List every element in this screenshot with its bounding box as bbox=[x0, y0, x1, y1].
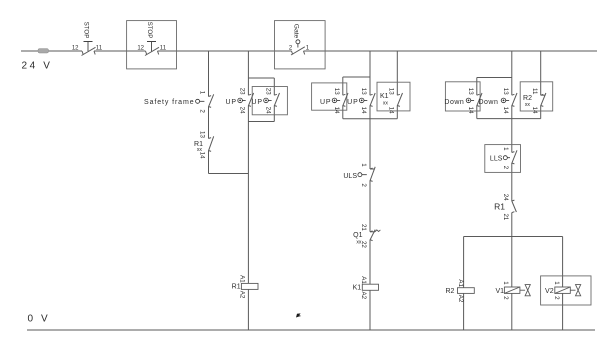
pin 14 of S5 bbox=[333, 107, 340, 114]
pin 11 of R2 contact bbox=[531, 88, 538, 95]
svg-text:14: 14 bbox=[333, 107, 340, 114]
pushbutton STOP S2 (NC) bbox=[145, 22, 159, 56]
svg-text:Gate: Gate bbox=[293, 24, 300, 39]
overload contact Q1 21-22 (NC) bbox=[353, 230, 380, 246]
pushbutton UP S3 (NO) bbox=[225, 93, 253, 106]
pin 24 of R1 contact bbox=[502, 194, 509, 201]
svg-text:Q1: Q1 bbox=[353, 232, 362, 239]
relay coil K1 bbox=[353, 284, 379, 291]
svg-text:21: 21 bbox=[502, 213, 509, 220]
wire W2 vertical bbox=[247, 51, 249, 330]
svg-text:13: 13 bbox=[360, 88, 367, 95]
svg-text:1: 1 bbox=[360, 163, 367, 167]
pin A2 of R2 coil bbox=[457, 295, 464, 303]
fuse F1 bbox=[38, 49, 49, 53]
wire 0V bottom rail bbox=[27, 329, 595, 331]
svg-text:STOP: STOP bbox=[83, 22, 90, 39]
pin 22 of Q1 bbox=[360, 241, 367, 248]
svg-text:LLS: LLS bbox=[490, 155, 503, 162]
svg-text:A1: A1 bbox=[239, 275, 246, 283]
pin 11 of S2 bbox=[160, 45, 167, 51]
pin 1 of V2 bbox=[553, 281, 560, 285]
svg-text:24: 24 bbox=[239, 107, 246, 114]
enclosure box remote UP bbox=[252, 87, 287, 115]
svg-text:12: 12 bbox=[72, 45, 79, 51]
pushbutton Down S8 (NO) bbox=[478, 93, 517, 106]
pushbutton UP S4 (NO) bbox=[251, 93, 279, 106]
pin 14 of R2 contact bbox=[531, 107, 538, 114]
svg-text:V2: V2 bbox=[545, 288, 554, 295]
pin 2 of ULS bbox=[360, 183, 367, 187]
pin 21 of R1 contact bbox=[502, 213, 509, 220]
enclosure box LLS bbox=[485, 145, 521, 173]
svg-text:Down: Down bbox=[444, 99, 464, 106]
svg-text:14: 14 bbox=[388, 107, 395, 114]
relay coil R1 bbox=[232, 283, 258, 290]
svg-text:14: 14 bbox=[502, 107, 509, 114]
svg-text:A2: A2 bbox=[457, 295, 464, 303]
relay contact R1 13-14 (NO) bbox=[194, 136, 214, 153]
wire UP2 branch loop bbox=[343, 77, 398, 119]
svg-text:STOP: STOP bbox=[146, 22, 153, 39]
svg-text:24 V: 24 V bbox=[22, 61, 53, 72]
pin 13 of S8 bbox=[502, 88, 509, 95]
node 24 V label bbox=[22, 61, 53, 72]
pin 14 of S6 bbox=[360, 107, 367, 114]
svg-text:13: 13 bbox=[333, 88, 340, 95]
svg-text:22: 22 bbox=[360, 241, 367, 248]
pin 1 of V1 bbox=[502, 281, 509, 285]
pin A1 of R2 coil bbox=[457, 279, 464, 287]
wire output junction bar bbox=[464, 237, 563, 331]
svg-text:13: 13 bbox=[388, 88, 395, 95]
svg-text:UP: UP bbox=[320, 99, 332, 106]
pin 1 of Gate bbox=[306, 45, 310, 51]
node 0 V label bbox=[28, 314, 51, 325]
wire W5 vertical bbox=[369, 51, 371, 330]
solenoid valve V1 bbox=[495, 285, 530, 296]
svg-text:2: 2 bbox=[360, 183, 367, 187]
limit switch Gate (on rail) bbox=[291, 24, 305, 55]
pin 1 of LLS bbox=[502, 147, 509, 151]
pin 14 of S8 bbox=[502, 107, 509, 114]
relay contact K1 13-14 (NO) bbox=[380, 93, 403, 107]
svg-text:1: 1 bbox=[306, 45, 310, 51]
svg-text:Down: Down bbox=[478, 99, 498, 106]
relay contact R2 11-14 (NC) bbox=[523, 93, 546, 108]
pushbutton UP S5 (NO) bbox=[320, 93, 348, 106]
pin 23 of S3 bbox=[239, 88, 246, 95]
limit switch ULS (NC) bbox=[343, 167, 375, 182]
svg-text:ULS: ULS bbox=[343, 173, 357, 180]
pin 23 of S4 bbox=[265, 88, 272, 95]
pin 13 of S7 bbox=[467, 88, 474, 95]
svg-text:A2: A2 bbox=[239, 291, 246, 299]
enclosure box R2 contact bbox=[520, 82, 553, 111]
pin 11 of S1 bbox=[96, 45, 103, 51]
svg-text:R1: R1 bbox=[494, 202, 505, 212]
pin 14 of R1 contact bbox=[199, 152, 206, 159]
svg-text:2: 2 bbox=[502, 296, 509, 300]
relay coil R2 bbox=[445, 288, 474, 295]
enclosure box K1 contact bbox=[377, 82, 410, 111]
pin 2 of V2 bbox=[553, 296, 560, 300]
svg-text:13: 13 bbox=[199, 131, 206, 138]
wire UP branch loop left bbox=[248, 78, 274, 122]
pin 1 of ULS bbox=[360, 163, 367, 167]
limit switch LLS (NO) bbox=[490, 150, 517, 164]
pin A2 of K1 coil bbox=[360, 292, 367, 300]
wire W8 vertical bbox=[511, 51, 513, 330]
pin 12 of S1 bbox=[72, 45, 79, 51]
pushbutton STOP S1 (NC) bbox=[82, 22, 96, 56]
svg-text:23: 23 bbox=[239, 88, 246, 95]
pin 2 of Gate bbox=[289, 45, 293, 51]
svg-text:14: 14 bbox=[199, 152, 206, 159]
svg-text:2: 2 bbox=[289, 45, 293, 51]
svg-text:A1: A1 bbox=[457, 279, 464, 287]
pin 2 of LLS bbox=[502, 166, 509, 170]
svg-text:UP: UP bbox=[251, 99, 263, 106]
svg-text:xx: xx bbox=[525, 102, 531, 108]
svg-text:14: 14 bbox=[531, 107, 538, 114]
svg-text:K1: K1 bbox=[353, 284, 362, 291]
svg-text:11: 11 bbox=[96, 45, 103, 51]
relay contact R1 24-21 (NO) bbox=[494, 200, 516, 213]
wire K1 seal branch bbox=[396, 51, 398, 119]
pin 1 of Safety frame bbox=[199, 91, 206, 95]
limit switch Safety frame (NO) bbox=[144, 94, 214, 107]
wire Down branch loop bbox=[477, 78, 541, 119]
pin 13 of S5 bbox=[333, 88, 340, 95]
mouse cursor mark bbox=[296, 313, 301, 317]
pin 13 of R1 contact bbox=[199, 131, 206, 138]
pushbutton Down S7 (NO) bbox=[444, 93, 482, 106]
solenoid valve V2 bbox=[545, 285, 581, 296]
svg-text:24: 24 bbox=[265, 107, 272, 114]
pin 14 of S7 bbox=[467, 107, 474, 114]
pin 2 of V1 bbox=[502, 296, 509, 300]
svg-text:K1: K1 bbox=[380, 93, 389, 100]
enclosure box remote station 1 bbox=[127, 21, 177, 69]
svg-text:11: 11 bbox=[160, 45, 167, 51]
svg-text:2: 2 bbox=[199, 109, 206, 113]
svg-text:14: 14 bbox=[360, 107, 367, 114]
svg-text:Safety frame: Safety frame bbox=[144, 99, 194, 106]
pushbutton UP S6 (NO) bbox=[347, 93, 375, 106]
enclosure box V2 bbox=[541, 276, 591, 305]
wire W1 vertical bbox=[208, 51, 210, 174]
svg-text:1: 1 bbox=[199, 91, 206, 95]
pin A2 of R1 coil bbox=[239, 291, 246, 299]
svg-text:12: 12 bbox=[137, 45, 144, 51]
svg-text:13: 13 bbox=[467, 88, 474, 95]
svg-text:1: 1 bbox=[502, 147, 509, 151]
svg-text:13: 13 bbox=[502, 88, 509, 95]
svg-text:UP: UP bbox=[347, 99, 359, 106]
svg-text:11: 11 bbox=[531, 88, 538, 95]
pin 24 of S4 bbox=[265, 107, 272, 114]
svg-text:1: 1 bbox=[502, 281, 509, 285]
svg-text:24: 24 bbox=[502, 194, 509, 201]
svg-text:UP: UP bbox=[225, 99, 237, 106]
pin 12 of S2 bbox=[137, 45, 144, 51]
pin 13 of K1 contact bbox=[388, 88, 395, 95]
svg-text:2: 2 bbox=[553, 296, 560, 300]
pin A1 of K1 coil bbox=[360, 276, 367, 284]
pin A1 of R1 coil bbox=[239, 275, 246, 283]
svg-text:1: 1 bbox=[553, 281, 560, 285]
enclosure box gate switch bbox=[275, 21, 326, 69]
svg-text:14: 14 bbox=[467, 107, 474, 114]
svg-text:23: 23 bbox=[265, 88, 272, 95]
svg-text:2: 2 bbox=[502, 166, 509, 170]
pin 14 of K1 contact bbox=[388, 107, 395, 114]
svg-text:0 V: 0 V bbox=[28, 314, 51, 325]
svg-text:R2: R2 bbox=[445, 288, 454, 295]
pin 13 of S6 bbox=[360, 88, 367, 95]
pin 24 of S3 bbox=[239, 107, 246, 114]
svg-text:R1: R1 bbox=[232, 284, 241, 291]
wire R2 interlock branch bbox=[540, 51, 542, 119]
enclosure box remote UP2 bbox=[312, 83, 347, 110]
pin 21 of Q1 bbox=[360, 224, 367, 231]
svg-text:A2: A2 bbox=[360, 292, 367, 300]
enclosure box remote Down bbox=[445, 82, 480, 111]
svg-text:A1: A1 bbox=[360, 276, 367, 284]
svg-text:V1: V1 bbox=[495, 288, 504, 295]
wire 24V top rail bbox=[21, 50, 597, 52]
wire W1 elbow to W2 bbox=[209, 173, 249, 175]
svg-text:21: 21 bbox=[360, 224, 367, 231]
pin 2 of Safety frame bbox=[199, 109, 206, 113]
